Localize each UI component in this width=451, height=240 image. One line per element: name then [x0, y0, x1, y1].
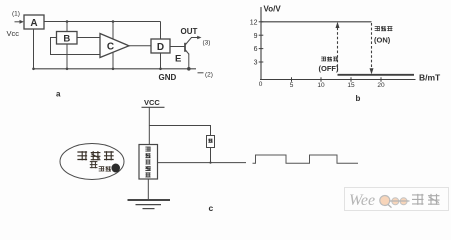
wire block D output to transistor E base — [170, 46, 185, 48]
dashed release-point line with up arrow — [336, 22, 340, 74]
graph axis Y (Vo/V) — [260, 7, 262, 80]
output waveform (square wave) — [253, 155, 359, 163]
wire comparator output to block D — [129, 45, 151, 47]
svg-text:D: D — [157, 42, 164, 53]
svg-text:b: b — [356, 94, 361, 103]
wire block A to ground rail — [33, 29, 35, 69]
svg-text:20: 20 — [377, 82, 385, 89]
dashed operate-point line with down arrow — [370, 23, 374, 74]
watermark WeeQoo text — [349, 192, 410, 209]
node junction dots on rails — [66, 20, 69, 23]
meter disc ellipse (电表转盘) — [60, 144, 124, 180]
svg-text:B: B — [63, 34, 70, 45]
wire block B supply drop (vertical) — [66, 22, 68, 69]
Y axis ticks and labels 12 9 6 3 — [259, 21, 264, 23]
svg-text:10: 10 — [317, 82, 325, 89]
resistor R — [207, 136, 215, 148]
svg-text:Wee: Wee — [349, 192, 375, 209]
svg-text:3: 3 — [254, 60, 258, 67]
svg-text:A: A — [30, 18, 37, 29]
svg-text:Vo/V: Vo/V — [264, 5, 282, 14]
ground symbol — [128, 200, 171, 209]
svg-text:Vcc: Vcc — [7, 29, 20, 38]
svg-text:OUT: OUT — [181, 27, 198, 36]
watermark Chinese 维库 — [412, 194, 424, 205]
label release point (Chinese) — [321, 57, 326, 62]
label operate point (Chinese) — [375, 26, 380, 31]
wire B output to comparator upper input — [77, 37, 100, 39]
wire Vcc input lead with arrow into block A — [15, 20, 24, 24]
svg-text:(ON): (ON) — [374, 36, 391, 45]
terminal dash and label (2) — [198, 72, 204, 74]
transistor E (output NPN) — [185, 38, 191, 69]
svg-text:(OFF): (OFF) — [319, 64, 339, 73]
wire block C supply drop (vertical) — [112, 22, 114, 69]
wire top supply rail — [44, 21, 161, 23]
wire bottom ground rail — [34, 68, 197, 70]
watermark frame — [345, 188, 449, 211]
svg-text:9: 9 — [254, 33, 258, 40]
wire resistor to output line — [210, 148, 212, 163]
svg-text:(3): (3) — [203, 40, 211, 47]
wire block D supply drop (vertical) — [160, 22, 162, 69]
svg-text:0: 0 — [259, 81, 263, 88]
svg-text:E: E — [175, 54, 181, 65]
disc label Chinese line 2 — [90, 161, 98, 168]
node emitter junction on ground rail — [187, 67, 191, 71]
block B (Hall element) — [57, 32, 78, 45]
node resistor/output junction — [209, 162, 211, 164]
svg-text:c: c — [209, 203, 214, 213]
graph axis X (B/mT) — [260, 79, 416, 81]
wire B feedback loop to comparator lower input — [51, 38, 101, 55]
block A (voltage regulator) — [24, 15, 44, 29]
curve high output level 12V — [261, 21, 372, 23]
svg-text:(2): (2) — [205, 72, 213, 79]
svg-text:(1): (1) — [12, 11, 20, 18]
svg-text:12: 12 — [250, 19, 258, 26]
svg-text:VCC: VCC — [144, 98, 160, 107]
wire VCC branch to resistor R — [149, 126, 210, 136]
wire VCC to hall sensor — [148, 107, 150, 144]
magnet dot on disc — [111, 164, 120, 173]
svg-text:GND: GND — [159, 73, 177, 82]
wire sensor output line — [158, 162, 247, 164]
svg-text:B/mT: B/mT — [419, 73, 441, 83]
svg-text:C: C — [107, 42, 114, 53]
curve low output level (thick) — [338, 74, 415, 76]
block D (schmitt trigger) — [151, 39, 170, 53]
svg-text:6: 6 — [254, 46, 258, 53]
svg-text:15: 15 — [347, 82, 355, 89]
wire sensor to ground — [147, 179, 149, 200]
svg-text:a: a — [56, 90, 61, 99]
svg-text:5: 5 — [290, 82, 294, 89]
wire collector arrow to terminal (3) — [191, 36, 202, 40]
hall sensor box with vertical Chinese text — [139, 145, 158, 180]
op-amp C (amplifier triangle) — [100, 34, 129, 58]
disc label Chinese line 1 — [77, 151, 87, 160]
